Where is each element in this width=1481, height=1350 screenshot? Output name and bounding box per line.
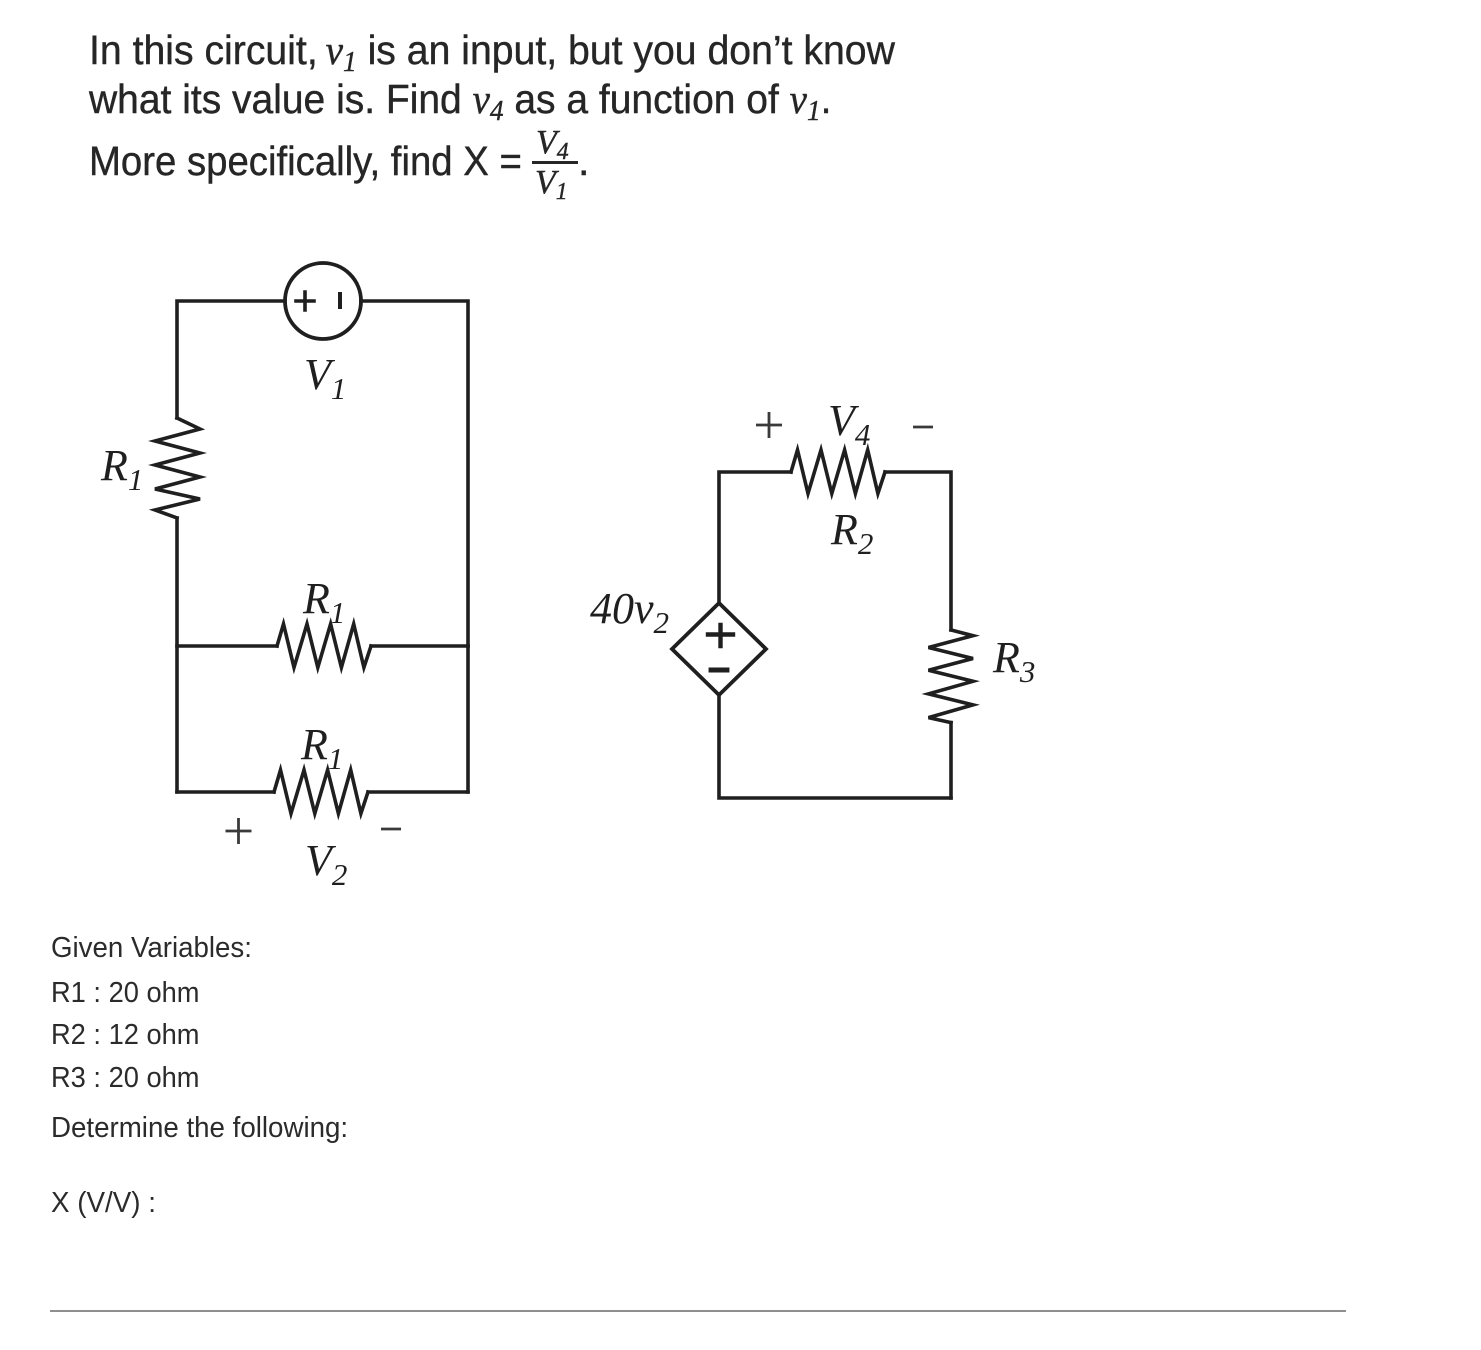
fraction bar: [532, 161, 578, 164]
value label R3 = 20 ohm: [51, 1062, 200, 1095]
fraction denominator V1: [535, 164, 568, 202]
V1 minus tick: [338, 294, 342, 307]
V1 plus sign: [296, 292, 314, 310]
svg-text:R1: R1: [100, 441, 143, 497]
resistor R1 left vertical: [155, 418, 200, 518]
answer prompt X (V/V): [51, 1187, 156, 1220]
header line 3: [89, 138, 522, 185]
value label R1 = 20 ohm: [51, 977, 200, 1010]
wire R2 to top-right corner: [885, 472, 951, 630]
determine heading: [51, 1112, 348, 1145]
svg-text:V2: V2: [305, 836, 347, 892]
wire below R3: [949, 723, 953, 798]
resistor R3 right vertical: [929, 630, 974, 723]
resistor R2 top horizontal: [791, 450, 885, 494]
dependent source 40v2 diamond: [672, 603, 766, 695]
wire bottom right segment: [368, 790, 468, 794]
svg-text:V1: V1: [304, 350, 346, 406]
wire middle left segment: [177, 644, 277, 648]
wire source V1 to top-right corner: [361, 301, 468, 646]
header line 1: [89, 26, 895, 74]
minus label V2: [381, 828, 401, 831]
dependent source minus sign: [711, 668, 727, 673]
svg-text:40v2: 40v2: [590, 584, 669, 640]
period after fraction: [578, 138, 589, 185]
wire below left R1: [175, 518, 179, 792]
wire bottom left segment: [177, 790, 274, 794]
resistor R1 middle horizontal: [277, 624, 371, 668]
minus label V4: [913, 426, 933, 429]
svg-text:R3: R3: [992, 633, 1035, 689]
wire top-left to source V1: [177, 301, 285, 418]
wire right-circuit top-left: [719, 472, 791, 603]
voltage source V1 circle: [285, 263, 361, 339]
svg-text:R2: R2: [830, 505, 873, 561]
wire middle right segment: [371, 644, 468, 648]
given variables heading: [51, 932, 252, 965]
plus label V2: [226, 818, 252, 844]
svg-text:R1: R1: [302, 574, 345, 630]
wire right vertical lower: [466, 646, 470, 792]
wire below dependent source: [719, 695, 951, 798]
fraction numerator V4: [536, 124, 569, 162]
bottom horizontal rule: [50, 1310, 1346, 1312]
svg-text:V4: V4: [828, 396, 870, 452]
header line 2: [89, 75, 831, 123]
dependent source plus sign: [708, 625, 733, 646]
value label R2 = 12 ohm: [51, 1019, 200, 1052]
svg-text:R1: R1: [300, 720, 343, 776]
plus label V4: [756, 412, 782, 438]
resistor R1 bottom horizontal: [274, 770, 368, 814]
